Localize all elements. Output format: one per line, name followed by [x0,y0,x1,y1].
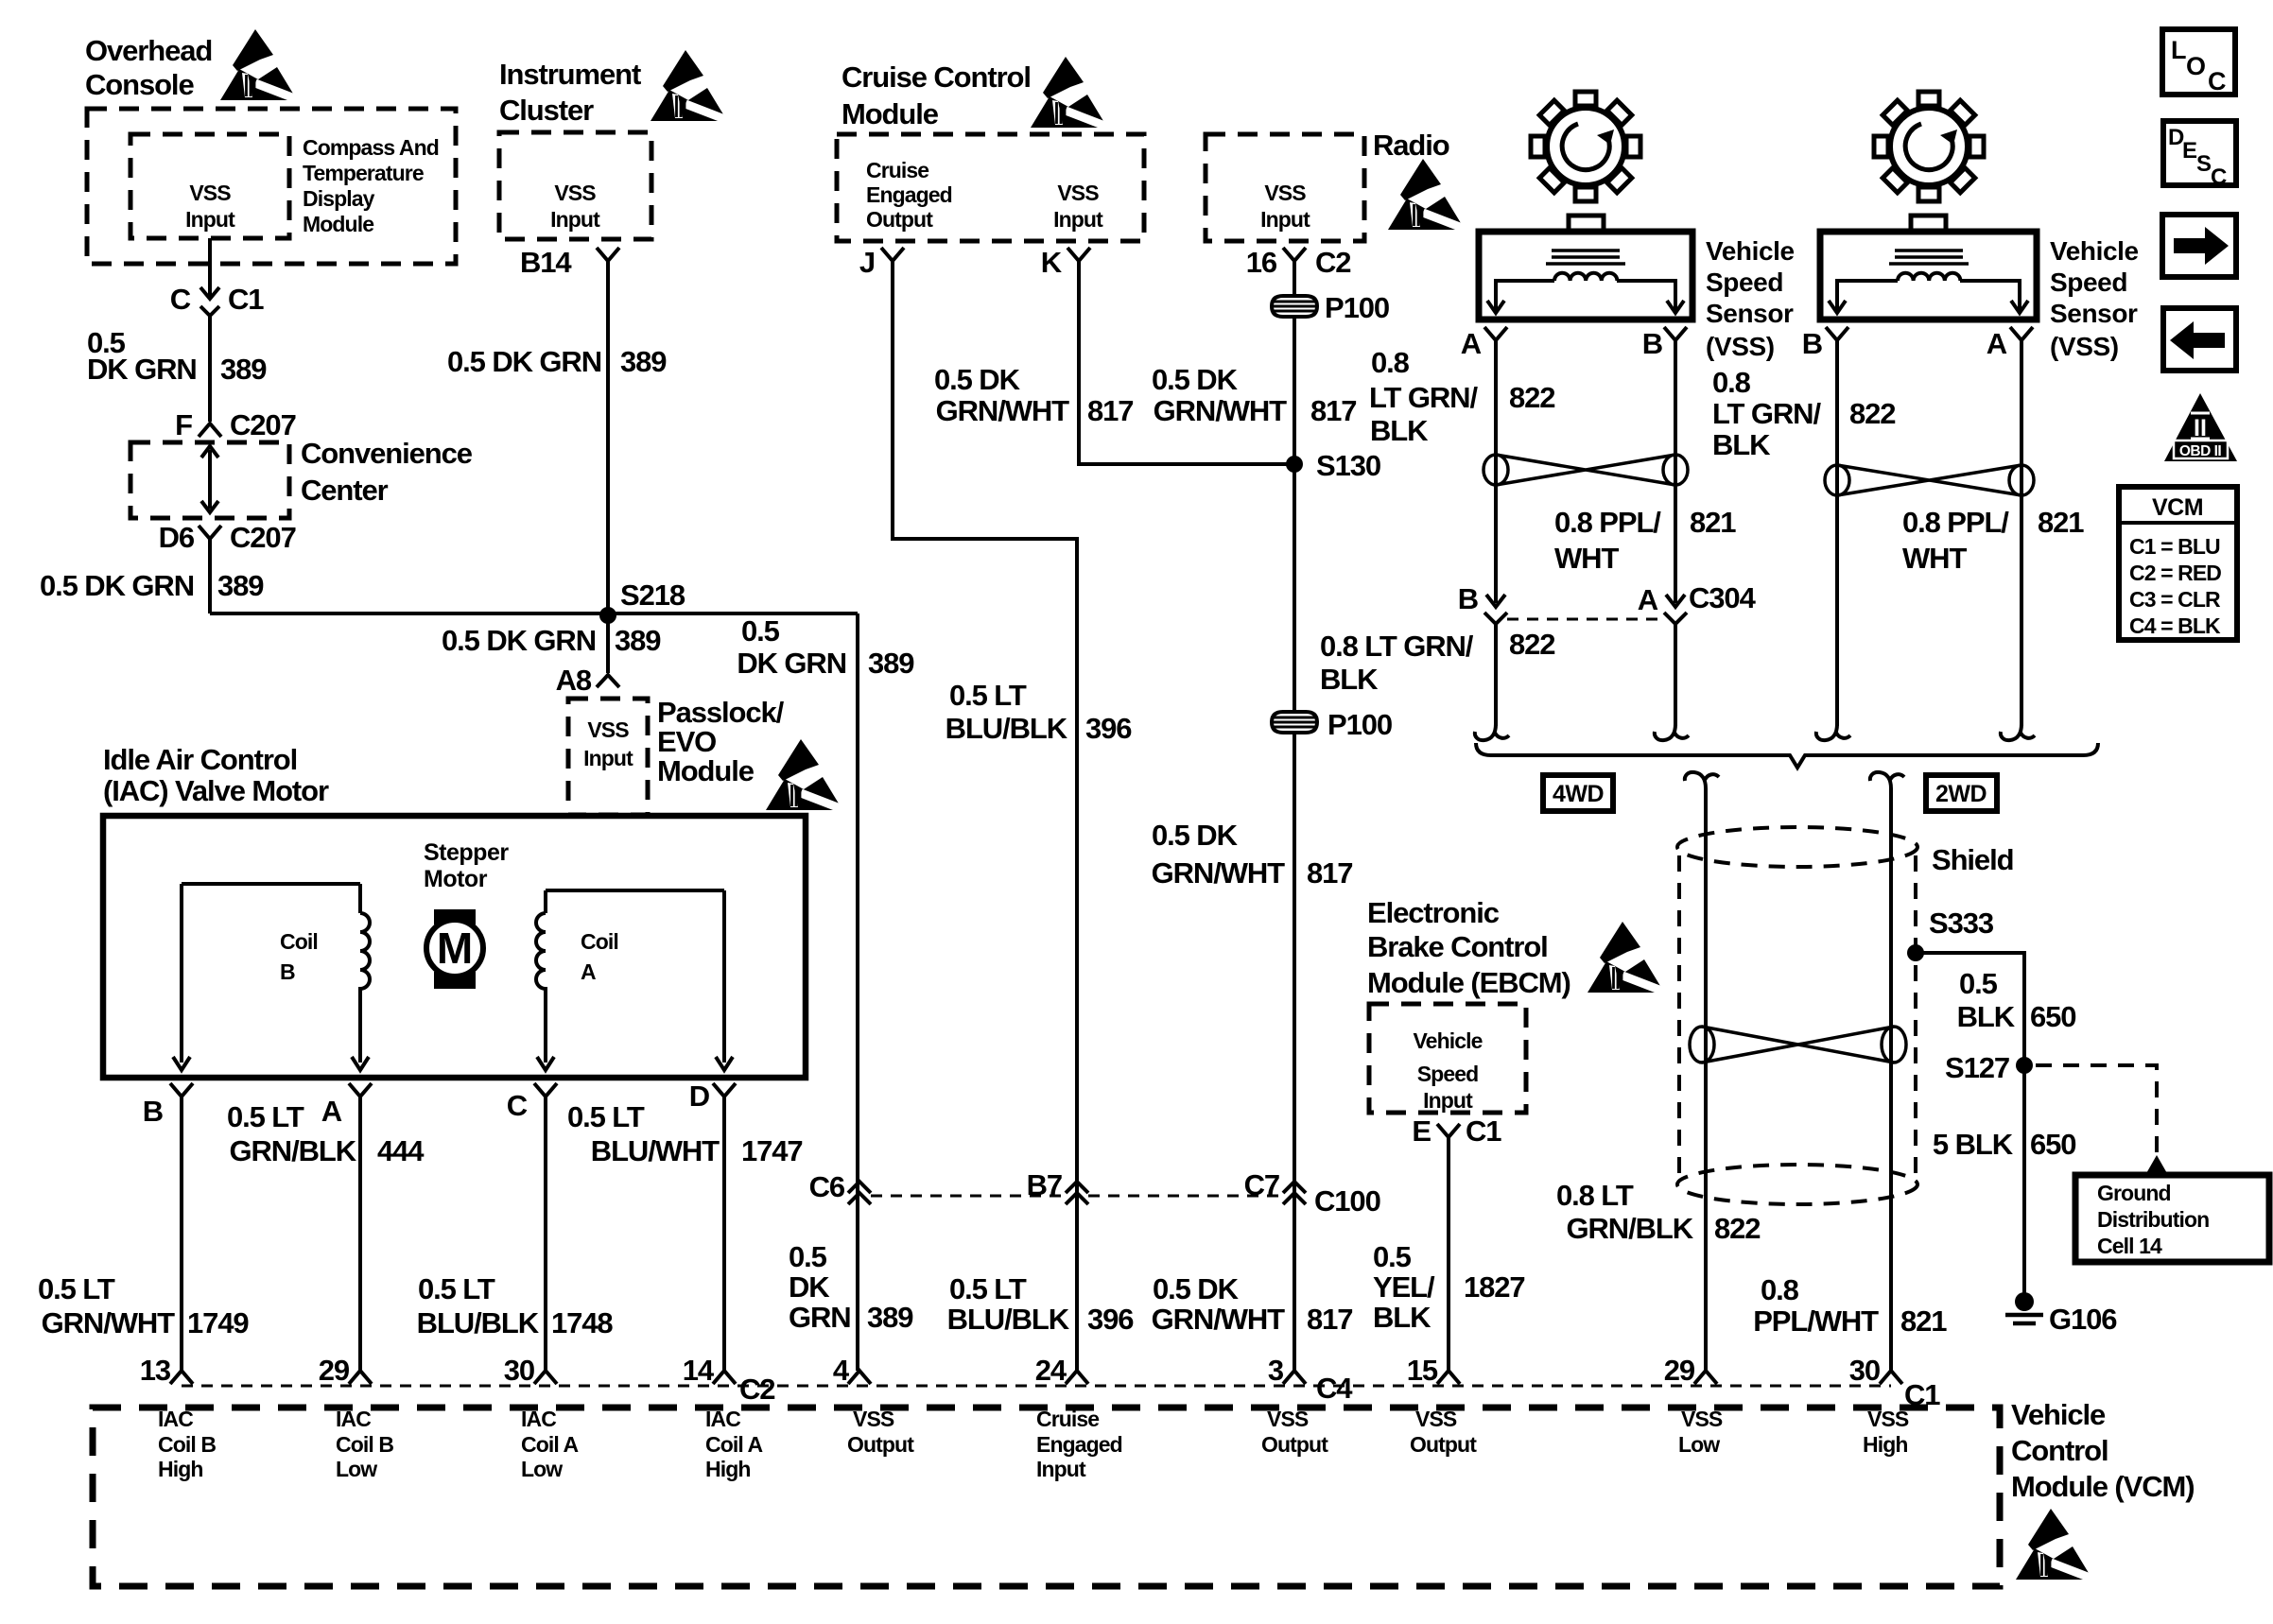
svg-text:IAC: IAC [158,1407,193,1431]
svg-text:2WD: 2WD [1935,781,1987,807]
svg-text:Temperature: Temperature [303,161,424,185]
svg-text:C207: C207 [230,521,296,554]
svg-text:Input: Input [185,207,235,232]
svg-text:C6: C6 [809,1170,845,1203]
svg-text:Sensor: Sensor [2050,299,2138,328]
svg-text:389: 389 [220,353,267,386]
svg-text:0.5 DK: 0.5 DK [1152,363,1239,396]
svg-text:C1: C1 [1466,1114,1501,1148]
svg-text:0.5: 0.5 [1959,967,1998,1000]
svg-text:B7: B7 [1027,1168,1062,1201]
svg-text:WHT: WHT [1554,542,1619,575]
svg-text:Center: Center [301,474,389,507]
svg-text:Brake Control: Brake Control [1367,930,1548,963]
svg-text:YEL/: YEL/ [1373,1270,1435,1304]
svg-text:Idle Air Control: Idle Air Control [103,743,297,776]
svg-text:GRN/WHT: GRN/WHT [42,1306,176,1339]
svg-text:BLK: BLK [1957,1000,2016,1033]
svg-text:(VSS): (VSS) [1706,332,1775,361]
svg-text:Instrument: Instrument [499,58,641,91]
svg-text:Coil A: Coil A [521,1432,578,1457]
svg-text:30: 30 [1849,1354,1880,1387]
svg-text:Coil B: Coil B [158,1432,216,1457]
svg-text:29: 29 [319,1354,350,1387]
svg-text:0.8: 0.8 [1371,346,1410,379]
svg-text:BLU/BLK: BLU/BLK [417,1306,540,1339]
svg-text:396: 396 [1087,1303,1134,1336]
svg-text:S: S [2196,151,2212,177]
svg-text:BLK: BLK [1712,428,1771,461]
svg-text:0.8 PPL/: 0.8 PPL/ [1902,506,2009,539]
svg-text:VSS: VSS [1415,1407,1457,1431]
svg-text:821: 821 [1690,506,1736,539]
svg-text:0.5 DK: 0.5 DK [1152,819,1239,852]
svg-text:4: 4 [833,1354,850,1387]
svg-text:P100: P100 [1325,291,1389,324]
svg-text:F: F [175,408,192,441]
svg-text:GRN/WHT: GRN/WHT [936,394,1070,427]
svg-text:389: 389 [615,624,661,657]
svg-text:Vehicle: Vehicle [2011,1398,2106,1431]
svg-text:650: 650 [2030,1128,2075,1161]
svg-text:Cluster: Cluster [499,94,594,127]
svg-text:0.5 DK: 0.5 DK [934,363,1021,396]
svg-text:Radio: Radio [1373,129,1449,162]
svg-text:Compass And: Compass And [303,135,439,160]
svg-text:C: C [2211,164,2227,190]
svg-text:C2: C2 [1315,246,1350,279]
svg-text:Input: Input [1053,207,1103,232]
svg-text:A: A [1638,583,1658,616]
svg-text:VCM: VCM [2152,494,2203,521]
svg-text:0.5 LT: 0.5 LT [38,1272,115,1305]
svg-text:C4 = BLK: C4 = BLK [2129,613,2221,638]
svg-text:VSS: VSS [554,181,596,205]
svg-text:822: 822 [1509,628,1554,661]
svg-text:EVO: EVO [657,725,716,758]
svg-text:High: High [158,1457,203,1481]
svg-text:C2 = RED: C2 = RED [2129,561,2221,585]
svg-text:0.5 DK GRN: 0.5 DK GRN [40,569,194,602]
svg-text:C3 = CLR: C3 = CLR [2129,587,2221,612]
svg-text:BLU/WHT: BLU/WHT [591,1134,720,1167]
svg-text:Speed: Speed [2050,268,2127,297]
svg-text:0.5: 0.5 [1373,1240,1412,1273]
svg-text:Module: Module [657,754,755,787]
svg-text:VSS: VSS [1057,181,1099,205]
svg-text:(IAC) Valve Motor: (IAC) Valve Motor [103,774,329,807]
svg-text:L: L [2171,36,2187,64]
svg-text:817: 817 [1087,394,1133,427]
svg-text:Module: Module [842,97,939,130]
svg-text:Engaged: Engaged [866,182,952,207]
svg-text:C100: C100 [1314,1184,1380,1218]
svg-text:C: C [507,1089,528,1122]
svg-text:OBD II: OBD II [2179,443,2222,459]
svg-text:VSS: VSS [1267,1407,1309,1431]
svg-text:29: 29 [1664,1354,1695,1387]
svg-text:High: High [1863,1432,1908,1457]
svg-text:VSS: VSS [1264,181,1306,205]
svg-text:(VSS): (VSS) [2050,332,2119,361]
svg-text:0.5 LT: 0.5 LT [949,679,1027,712]
svg-text:C4: C4 [1316,1372,1353,1405]
svg-text:LT GRN/: LT GRN/ [1712,397,1821,430]
svg-text:0.5: 0.5 [789,1240,827,1273]
svg-text:G106: G106 [2049,1303,2117,1336]
svg-text:O: O [2186,52,2206,80]
svg-text:GRN/BLK: GRN/BLK [229,1134,356,1167]
svg-text:389: 389 [217,569,264,602]
svg-text:Low: Low [521,1457,563,1481]
svg-text:817: 817 [1307,1303,1352,1336]
svg-text:0.5 DK: 0.5 DK [1153,1272,1240,1305]
svg-text:Input: Input [1423,1088,1473,1113]
svg-text:0.8 PPL/: 0.8 PPL/ [1554,506,1661,539]
svg-text:IAC: IAC [705,1407,740,1431]
svg-text:Vehicle: Vehicle [2050,236,2139,266]
svg-text:Distribution: Distribution [2097,1207,2209,1232]
svg-text:Convenience: Convenience [301,437,473,470]
svg-text:Low: Low [1678,1432,1720,1457]
svg-text:Stepper: Stepper [424,839,509,866]
svg-text:1747: 1747 [741,1134,803,1167]
svg-text:Speed: Speed [1706,268,1783,297]
svg-text:VSS: VSS [189,181,231,205]
svg-text:DK GRN: DK GRN [737,647,846,680]
svg-text:S130: S130 [1316,449,1380,482]
svg-text:VSS: VSS [587,717,629,742]
svg-text:D6: D6 [159,521,195,554]
svg-text:Module: Module [303,212,373,236]
svg-text:BLU/BLK: BLU/BLK [947,1303,1070,1336]
svg-text:Ground: Ground [2097,1181,2171,1205]
svg-text:DK: DK [789,1270,830,1304]
svg-text:B14: B14 [520,246,572,279]
svg-text:4WD: 4WD [1553,781,1604,807]
svg-text:C207: C207 [230,408,296,441]
svg-text:Display: Display [303,186,375,211]
svg-text:High: High [705,1457,751,1481]
svg-text:B: B [143,1095,163,1128]
svg-text:E: E [2182,138,2197,164]
svg-text:Motor: Motor [424,866,488,892]
svg-text:Engaged: Engaged [1036,1432,1122,1457]
svg-text:0.5 LT: 0.5 LT [227,1100,304,1133]
svg-text:24: 24 [1035,1354,1067,1387]
svg-text:Cell 14: Cell 14 [2097,1234,2162,1258]
svg-text:Passlock/: Passlock/ [657,696,785,729]
svg-text:IAC: IAC [521,1407,556,1431]
svg-text:5 BLK: 5 BLK [1933,1128,2014,1161]
svg-text:GRN/WHT: GRN/WHT [1152,1303,1286,1336]
svg-text:0.8 LT GRN/: 0.8 LT GRN/ [1320,630,1474,663]
svg-text:Vehicle: Vehicle [1706,236,1795,266]
svg-text:VSS: VSS [853,1407,894,1431]
svg-text:IAC: IAC [336,1407,371,1431]
svg-text:Output: Output [847,1432,914,1457]
svg-text:Low: Low [336,1457,377,1481]
svg-text:PPL/WHT: PPL/WHT [1753,1304,1879,1338]
svg-text:C1 = BLU: C1 = BLU [2129,534,2220,559]
svg-text:Output: Output [866,207,933,232]
svg-text:LT GRN/: LT GRN/ [1369,381,1478,414]
svg-text:Module (VCM): Module (VCM) [2011,1470,2194,1503]
svg-text:16: 16 [1246,246,1277,279]
svg-text:A: A [1987,327,2007,360]
svg-text:C7: C7 [1244,1168,1279,1201]
svg-text:0.5 LT: 0.5 LT [567,1100,645,1133]
svg-text:BLK: BLK [1320,663,1379,696]
svg-text:GRN: GRN [789,1301,851,1334]
svg-text:A8: A8 [556,664,592,697]
svg-text:0.8 LT: 0.8 LT [1556,1179,1634,1212]
svg-text:B: B [1802,327,1822,360]
svg-text:817: 817 [1307,856,1352,890]
svg-text:B: B [280,959,295,984]
svg-text:Cruise: Cruise [1036,1407,1099,1431]
svg-text:VSS: VSS [1681,1407,1723,1431]
svg-text:A: A [1461,327,1482,360]
svg-text:1748: 1748 [551,1306,613,1339]
svg-text:BLK: BLK [1370,414,1429,447]
svg-text:Speed: Speed [1417,1062,1479,1086]
svg-text:0.5 DK GRN: 0.5 DK GRN [442,624,596,657]
svg-text:D: D [689,1080,710,1113]
svg-text:0.5 LT: 0.5 LT [949,1272,1027,1305]
svg-text:Cruise: Cruise [866,158,928,182]
svg-text:DK GRN: DK GRN [87,353,197,386]
svg-text:B: B [1642,327,1662,360]
svg-text:C304: C304 [1689,581,1757,614]
svg-text:S127: S127 [1945,1051,2009,1084]
svg-text:15: 15 [1407,1354,1438,1387]
svg-text:C1: C1 [228,283,264,316]
svg-text:Input: Input [1260,207,1310,232]
svg-text:0.8: 0.8 [1761,1273,1799,1306]
svg-text:Coil: Coil [581,929,618,954]
svg-text:B: B [1458,582,1478,615]
svg-text:Coil: Coil [280,929,318,954]
svg-text:E: E [1412,1114,1431,1148]
svg-text:Sensor: Sensor [1706,299,1794,328]
svg-text:A: A [581,959,596,984]
svg-text:WHT: WHT [1902,542,1967,575]
svg-text:0.5: 0.5 [741,614,780,648]
svg-text:Coil B: Coil B [336,1432,393,1457]
svg-text:Output: Output [1261,1432,1328,1457]
svg-text:0.5 LT: 0.5 LT [418,1272,495,1305]
svg-text:Vehicle: Vehicle [1414,1028,1483,1053]
svg-text:BLU/BLK: BLU/BLK [946,712,1068,745]
svg-text:396: 396 [1085,712,1132,745]
svg-text:C: C [170,283,191,316]
svg-text:M: M [437,924,473,973]
svg-text:Cruise Control: Cruise Control [842,60,1031,94]
svg-text:GRN/BLK: GRN/BLK [1566,1212,1693,1245]
svg-text:0.5 DK GRN: 0.5 DK GRN [447,345,601,378]
svg-text:Input: Input [1036,1457,1086,1481]
svg-text:P100: P100 [1327,708,1392,741]
svg-text:3: 3 [1268,1354,1284,1387]
svg-text:VSS: VSS [1867,1407,1909,1431]
svg-text:S218: S218 [620,579,685,612]
svg-text:817: 817 [1310,394,1356,427]
svg-text:J: J [859,246,875,279]
svg-text:Electronic: Electronic [1367,896,1500,929]
svg-text:0.8: 0.8 [1712,366,1751,399]
svg-text:389: 389 [620,345,667,378]
svg-text:C: C [2208,67,2227,95]
svg-text:GRN/WHT: GRN/WHT [1152,856,1286,890]
svg-text:Output: Output [1410,1432,1477,1457]
svg-text:A: A [321,1095,342,1128]
svg-text:14: 14 [683,1354,715,1387]
svg-text:822: 822 [1714,1212,1760,1245]
svg-text:650: 650 [2030,1000,2075,1033]
svg-text:Control: Control [2011,1434,2108,1467]
svg-text:BLK: BLK [1373,1301,1431,1334]
svg-text:Module (EBCM): Module (EBCM) [1367,966,1570,999]
svg-text:1749: 1749 [187,1306,249,1339]
svg-text:Input: Input [583,746,633,770]
svg-text:Coil A: Coil A [705,1432,762,1457]
svg-text:Input: Input [550,207,600,232]
svg-text:Overhead: Overhead [85,34,212,67]
svg-text:Shield: Shield [1932,843,2013,876]
svg-text:389: 389 [867,1301,913,1334]
svg-text:C2: C2 [739,1373,774,1406]
svg-text:822: 822 [1509,381,1554,414]
svg-text:389: 389 [868,647,914,680]
svg-text:Console: Console [85,68,194,101]
svg-text:822: 822 [1849,397,1895,430]
svg-text:13: 13 [140,1354,171,1387]
svg-text:821: 821 [2038,506,2084,539]
svg-text:821: 821 [1900,1304,1947,1338]
svg-text:S333: S333 [1929,907,1994,940]
svg-text:30: 30 [504,1354,534,1387]
svg-text:K: K [1041,246,1063,279]
svg-text:GRN/WHT: GRN/WHT [1154,394,1288,427]
svg-text:1827: 1827 [1464,1270,1525,1304]
svg-text:444: 444 [377,1134,425,1167]
